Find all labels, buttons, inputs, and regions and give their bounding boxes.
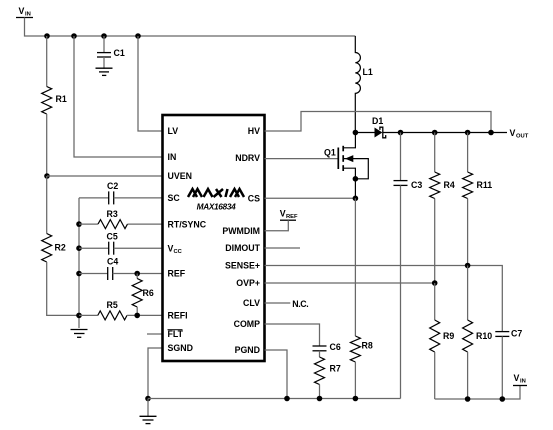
junction R7/rail [317, 396, 323, 402]
terminal VREF [280, 209, 298, 221]
svg-text:R5: R5 [107, 300, 118, 310]
svg-text:V: V [514, 373, 520, 383]
junction R9/OVP+ [432, 280, 438, 286]
svg-text:N.C.: N.C. [292, 299, 308, 309]
wire VIN stub to top bus [25, 18, 356, 37]
wire HV to VOUT node [265, 112, 492, 133]
wire FLT stub [147, 333, 163, 335]
svg-text:SC: SC [168, 193, 181, 203]
svg-text:NDRV: NDRV [235, 153, 260, 163]
wire COMP to C6 [265, 324, 320, 346]
capacitor C2 [79, 181, 163, 204]
svg-text:C4: C4 [107, 257, 118, 267]
wire left ground bus vertical [78, 198, 80, 328]
junction R4/VOUT [432, 130, 438, 136]
junction R5/gnd [76, 313, 82, 319]
wire OVP+ row [265, 282, 435, 284]
svg-text:CC: CC [174, 249, 183, 255]
wire SGND to ground rail [148, 348, 163, 399]
junction R10/VIN rail [465, 396, 471, 402]
pin VCC [168, 243, 183, 255]
resistor R8 [350, 198, 372, 398]
ground left network [71, 330, 88, 338]
resistor R3 [79, 209, 163, 229]
wire VOUT row [383, 132, 507, 134]
pin FLT (overline) [168, 329, 184, 339]
svg-text:RT/SYNC: RT/SYNC [168, 219, 207, 229]
svg-text:R3: R3 [107, 209, 118, 219]
wire CS row [265, 197, 356, 199]
terminal VIN top-left [16, 6, 33, 18]
wire CLV stub N.C. [265, 299, 309, 309]
junction R6/REFI [134, 313, 140, 319]
svg-text:R2: R2 [55, 243, 66, 253]
svg-text:C5: C5 [107, 232, 118, 242]
op-amp/controller U1 MAX16834 box [163, 115, 265, 361]
junction node LV/bus [135, 33, 141, 39]
resistor R5 [79, 300, 163, 320]
resistor R7 [315, 351, 341, 399]
svg-text:CS: CS [248, 193, 260, 203]
svg-text:PWMDIM: PWMDIM [222, 226, 260, 236]
svg-text:OVP+: OVP+ [236, 278, 260, 288]
svg-text:C1: C1 [114, 48, 125, 58]
svg-text:MAX16834: MAX16834 [197, 202, 236, 212]
svg-text:CLV: CLV [243, 298, 260, 308]
svg-text:IN: IN [520, 379, 526, 385]
junction SGND/rail [145, 396, 151, 402]
junction node C1/bus [101, 33, 107, 39]
wire SENSE+ row [265, 266, 503, 332]
junction R11/VOUT [465, 130, 471, 136]
wire VIN return rail [435, 386, 520, 400]
svg-text:COMP: COMP [234, 319, 261, 329]
wire bus to R1 [46, 36, 48, 87]
svg-text:L1: L1 [363, 67, 373, 77]
junction switch node [353, 130, 359, 136]
capacitor C7 [495, 329, 522, 400]
junction Q1 source [353, 176, 359, 182]
junction node R1/bus [44, 33, 50, 39]
junction HV/VOUT [488, 130, 494, 136]
svg-text:IN: IN [25, 12, 31, 18]
svg-text:V: V [280, 209, 286, 219]
terminal VIN bottom-right [513, 373, 527, 386]
svg-text:R1: R1 [56, 94, 67, 104]
ground below C1 [96, 68, 113, 75]
junction node IN/bus [71, 33, 77, 39]
junction node UVEN divider [44, 173, 50, 179]
svg-text:REFI: REFI [168, 311, 188, 321]
resistor R9 [430, 283, 455, 399]
capacitor C4 [79, 257, 163, 281]
svg-text:V: V [510, 128, 516, 138]
svg-text:LV: LV [168, 126, 179, 136]
wire DIMOUT stub [265, 247, 301, 249]
wire bus to LV pin [138, 36, 163, 131]
inductor L1 [355, 36, 373, 133]
svg-text:DIMOUT: DIMOUT [225, 243, 260, 253]
svg-text:HV: HV [248, 126, 260, 136]
junction R8/rail [353, 396, 359, 402]
junction R6/REF [134, 271, 140, 277]
junction PGND/rail [284, 396, 290, 402]
svg-text:D1: D1 [372, 116, 383, 126]
wire NDRV to gate [265, 158, 339, 160]
junction C3/VOUT [398, 130, 404, 136]
svg-text:C6: C6 [330, 342, 341, 352]
svg-text:R6: R6 [143, 288, 154, 298]
svg-text:FLT: FLT [168, 329, 184, 339]
svg-text:R8: R8 [362, 341, 373, 351]
svg-text:R10: R10 [476, 331, 492, 341]
wire R2 bottom to ground node [47, 262, 79, 315]
wire ground rail [148, 398, 401, 400]
wire UVEN pin [47, 175, 163, 177]
svg-text:OUT: OUT [516, 134, 529, 140]
svg-text:REF: REF [286, 214, 298, 220]
svg-text:SENSE+: SENSE+ [225, 261, 260, 271]
resistor R4 [430, 133, 455, 284]
svg-text:R11: R11 [477, 180, 493, 190]
svg-text:R9: R9 [443, 331, 454, 341]
resistor R11 [463, 133, 493, 266]
junction C4/gnd [76, 271, 82, 277]
svg-text:V: V [19, 6, 25, 16]
svg-text:Q1: Q1 [324, 148, 336, 158]
terminal VOUT [510, 128, 529, 140]
wire source to CS node [354, 179, 356, 199]
svg-text:C2: C2 [107, 181, 118, 191]
diode D1 (schottky) [355, 116, 385, 138]
capacitor C1 [97, 36, 125, 69]
svg-text:R4: R4 [444, 180, 455, 190]
wire R1 to UVEN node [46, 114, 48, 176]
svg-text:IN: IN [168, 152, 177, 162]
junction C7/VIN rail [500, 396, 506, 402]
junction C5/gnd [76, 245, 82, 251]
junction R10/SENSE+ [465, 263, 471, 269]
resistor R1 [42, 87, 67, 115]
resistor R2 [42, 234, 66, 263]
MAXIM logo [188, 189, 244, 197]
resistor R10 [463, 266, 493, 400]
junction R3/gnd [76, 221, 82, 227]
svg-text:UVEN: UVEN [168, 171, 192, 181]
wire bus to IN pin [74, 36, 163, 157]
resistor R6 [132, 274, 154, 316]
capacitor C3 [394, 133, 423, 399]
svg-text:PGND: PGND [235, 345, 260, 355]
junction CS node [353, 196, 359, 202]
ground main rail [140, 399, 157, 424]
wire UVEN node to R2 [46, 176, 48, 234]
svg-text:R7: R7 [330, 364, 341, 374]
transistor Q1 [324, 133, 368, 179]
svg-text:C3: C3 [411, 180, 422, 190]
svg-text:REF: REF [168, 269, 186, 279]
wire VREF to PWMDIM [265, 220, 289, 231]
wire PGND to rail [265, 350, 288, 399]
capacitor C5 [79, 232, 163, 255]
svg-text:C7: C7 [511, 329, 522, 339]
capacitor C6 [313, 342, 341, 352]
svg-text:SGND: SGND [168, 343, 193, 353]
